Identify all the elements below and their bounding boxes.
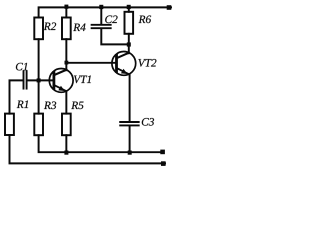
resistor R3 — [34, 114, 43, 136]
label C2 — [105, 16, 117, 24]
wire VT2 base — [66, 62, 116, 64]
terminal bottom right — [161, 161, 166, 166]
capacitor C1 — [23, 71, 25, 88]
wire top rail V+ — [39, 7, 171, 17]
label R5 — [71, 102, 83, 110]
wire R5 bottom — [65, 135, 67, 152]
label R3 — [44, 102, 56, 110]
wire R2 bottom to base node — [38, 39, 40, 113]
label VT1 — [74, 76, 91, 84]
wire R6 stub — [128, 7, 130, 11]
node R5/output wire — [64, 151, 68, 155]
node VT1 collector to VT2 base — [65, 61, 69, 65]
label C3 — [142, 118, 154, 126]
capacitor C3 — [120, 121, 139, 123]
wire C2 stub — [100, 7, 102, 24]
transistor VT1 — [49, 69, 73, 93]
resistor R1 — [5, 114, 14, 135]
label C1 — [16, 63, 27, 71]
wire VT1 emitter to R5 — [65, 91, 67, 113]
capacitor C2 — [92, 24, 111, 26]
node R6 top — [127, 5, 131, 9]
resistor R5 — [62, 114, 71, 136]
label R4 — [73, 24, 85, 31]
label R2 — [44, 23, 56, 30]
wire R6 bottom — [128, 34, 130, 45]
wire R1 bottom / ground rail — [10, 135, 166, 163]
label VT2 — [138, 59, 156, 67]
node C3/output wire — [128, 151, 132, 155]
resistor R4 — [62, 18, 71, 40]
wire R4 stub — [65, 7, 67, 17]
wire R4 bottom / VT1 collector — [65, 39, 67, 70]
wire C3 bottom to output wire — [129, 126, 131, 152]
node C2 top — [99, 5, 103, 9]
label R6 — [139, 16, 152, 24]
wire R3 bottom to output wire — [39, 135, 162, 152]
wire VT2 emitter to C3 — [129, 74, 131, 121]
terminal output top — [160, 150, 165, 155]
node R4 top — [64, 5, 68, 9]
wire C1 right to VT1 base — [28, 79, 53, 81]
wire C2 bottom to collector node — [101, 29, 129, 45]
resistor R6 — [125, 12, 134, 34]
wire C1 input — [10, 80, 23, 113]
transistor VT2 — [112, 52, 136, 76]
node C1/R2/R3 junction — [37, 78, 41, 82]
label R1 — [17, 101, 28, 108]
node C2/R6/VT2 collector — [127, 42, 131, 46]
wire VT2 collector — [128, 44, 130, 53]
resistor R2 — [34, 18, 43, 40]
terminal top right — [167, 5, 172, 10]
